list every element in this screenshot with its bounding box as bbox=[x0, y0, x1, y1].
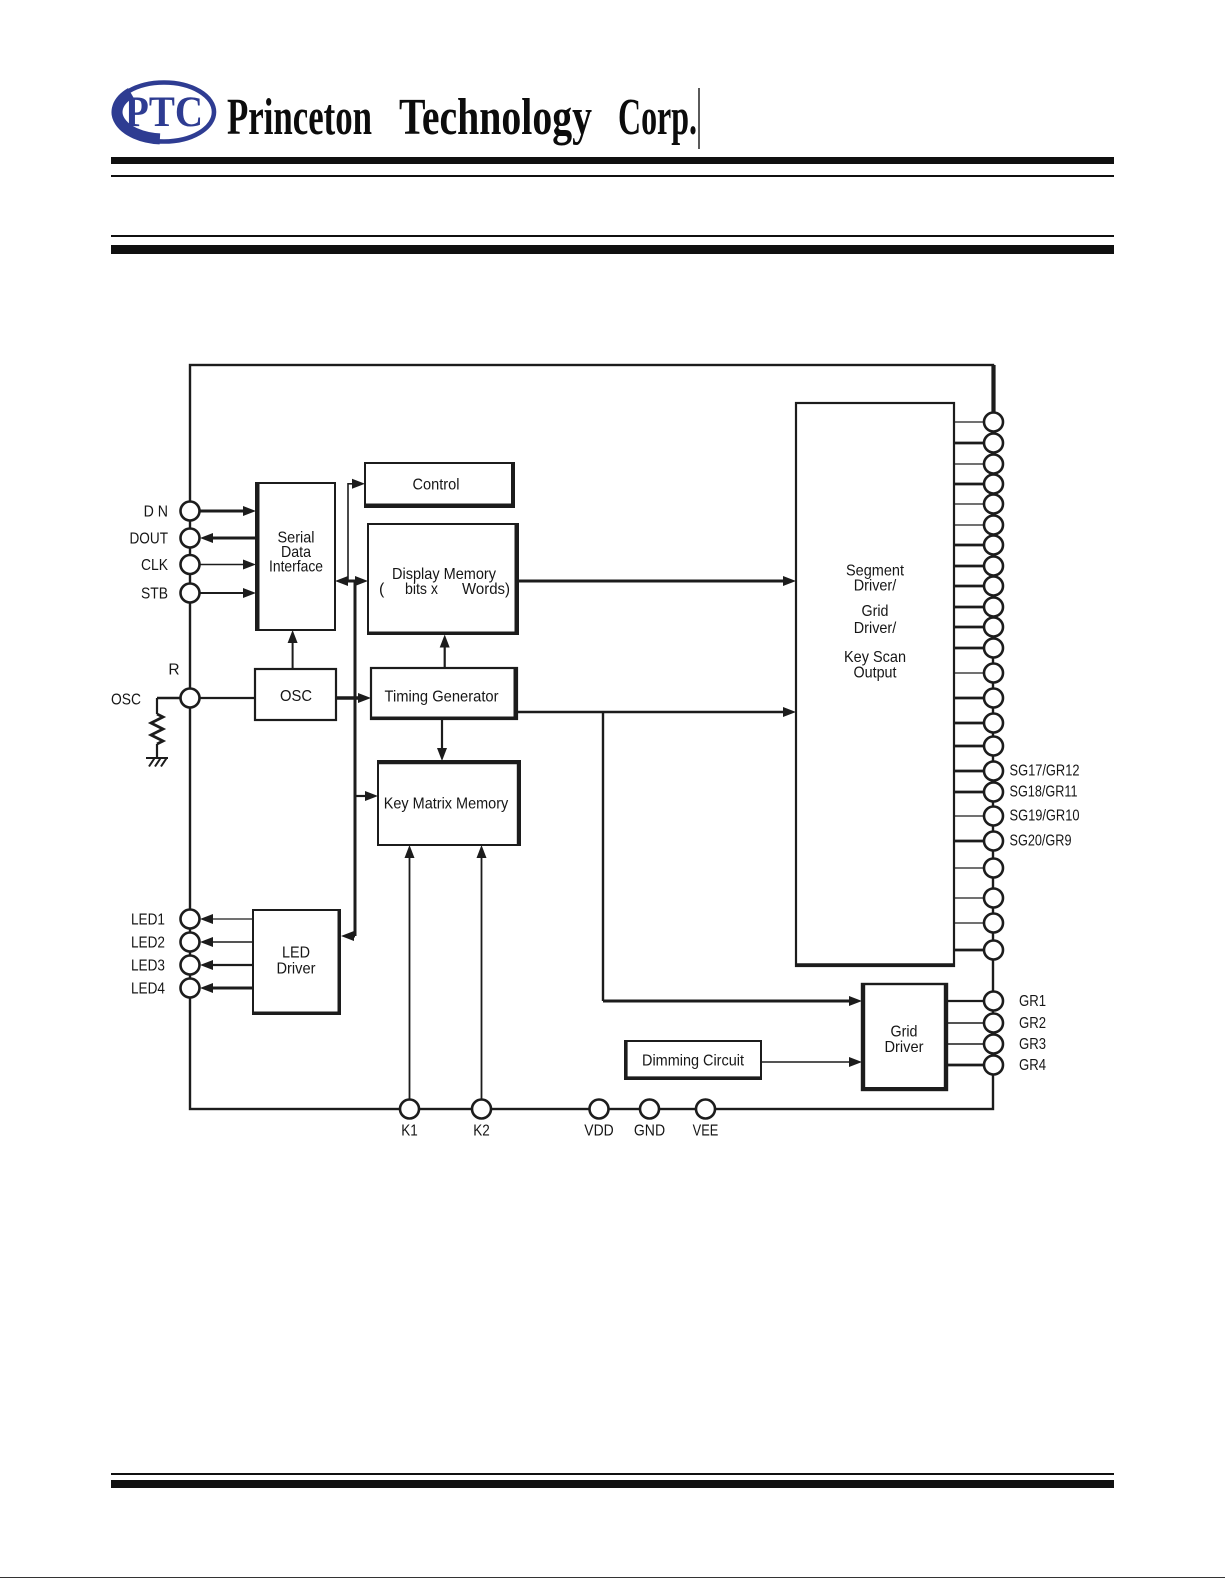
svg-text:Timing Generator: Timing Generator bbox=[385, 688, 500, 705]
svg-text:(: ( bbox=[379, 581, 385, 598]
svg-text:Words): Words) bbox=[462, 581, 510, 598]
svg-text:GR4: GR4 bbox=[1019, 1057, 1046, 1074]
svg-text:Driver/: Driver/ bbox=[854, 578, 897, 595]
svg-text:Grid: Grid bbox=[891, 1024, 918, 1041]
svg-text:LED2: LED2 bbox=[131, 934, 165, 951]
svg-text:LED3: LED3 bbox=[131, 957, 165, 974]
svg-text:Key Matrix Memory: Key Matrix Memory bbox=[384, 796, 509, 813]
svg-text:R: R bbox=[168, 662, 179, 679]
svg-text:SG20/GR9: SG20/GR9 bbox=[1010, 833, 1072, 850]
svg-text:SG18/GR11: SG18/GR11 bbox=[1010, 784, 1078, 801]
svg-text:Dimming Circuit: Dimming Circuit bbox=[642, 1053, 744, 1070]
svg-text:GR3: GR3 bbox=[1019, 1036, 1046, 1053]
svg-text:OSC: OSC bbox=[111, 692, 141, 709]
svg-text:CLK: CLK bbox=[141, 557, 169, 574]
svg-text:SG19/GR10: SG19/GR10 bbox=[1010, 808, 1080, 825]
svg-text:Interface: Interface bbox=[269, 559, 323, 576]
svg-text:Driver: Driver bbox=[885, 1039, 925, 1056]
svg-text:Driver/: Driver/ bbox=[854, 620, 897, 637]
svg-text:LED1: LED1 bbox=[131, 911, 165, 928]
svg-text:DOUT: DOUT bbox=[130, 530, 169, 547]
svg-text:GND: GND bbox=[634, 1123, 665, 1140]
svg-text:OSC: OSC bbox=[280, 688, 312, 705]
svg-text:Control: Control bbox=[413, 477, 460, 494]
svg-text:VDD: VDD bbox=[584, 1123, 613, 1140]
svg-text:GR2: GR2 bbox=[1019, 1015, 1046, 1032]
svg-text:K2: K2 bbox=[473, 1123, 490, 1140]
svg-text:STB: STB bbox=[141, 585, 168, 602]
svg-text:GR1: GR1 bbox=[1019, 993, 1046, 1010]
svg-text:Grid: Grid bbox=[862, 603, 889, 620]
svg-text:K1: K1 bbox=[401, 1123, 418, 1140]
svg-text:Driver: Driver bbox=[277, 961, 317, 978]
svg-text:Key Scan: Key Scan bbox=[844, 649, 906, 666]
svg-text:bits x: bits x bbox=[405, 581, 438, 598]
svg-text:SG17/GR12: SG17/GR12 bbox=[1010, 763, 1080, 780]
svg-text:Output: Output bbox=[854, 665, 897, 682]
svg-text:VEE: VEE bbox=[693, 1123, 719, 1140]
svg-text:D N: D N bbox=[144, 503, 168, 520]
svg-text:LED4: LED4 bbox=[131, 980, 165, 997]
svg-text:LED: LED bbox=[282, 945, 310, 962]
